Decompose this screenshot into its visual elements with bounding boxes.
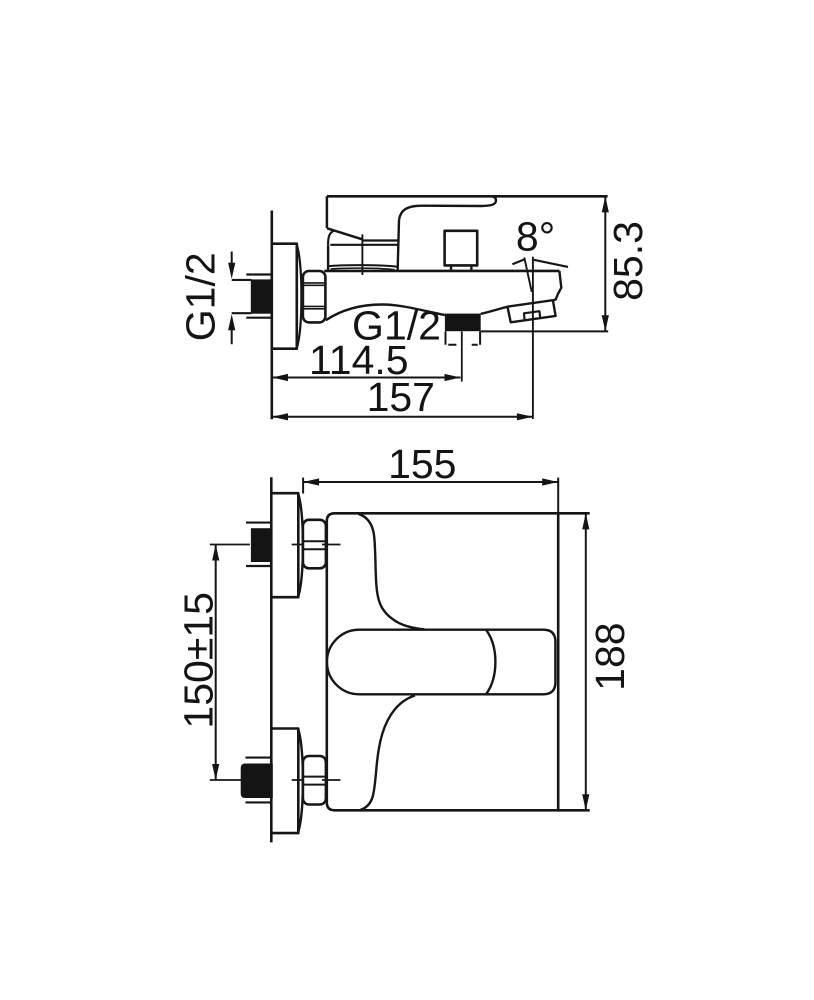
body underside wave (right of outlet) xyxy=(481,307,508,314)
155 left extension line xyxy=(302,478,304,494)
155 right extension line xyxy=(557,478,559,514)
body underside wave (left of outlet) xyxy=(326,304,445,320)
wall inlet thread (black, side view) xyxy=(251,279,272,313)
svg-text:155: 155 xyxy=(388,441,456,487)
handle hub (front view) xyxy=(486,630,555,695)
diverter knob stem xyxy=(451,265,471,271)
body outline (front view) xyxy=(327,513,590,810)
svg-text:8°: 8° xyxy=(516,214,555,260)
hose nipple below outlet xyxy=(446,331,481,344)
spout right face xyxy=(553,271,561,301)
handle left edge and bottom diagonal xyxy=(327,196,362,239)
escutcheon inner edge line xyxy=(297,245,302,349)
wall line (side view) xyxy=(270,211,273,420)
8 deg roof lines xyxy=(512,259,568,267)
svg-text:150±15: 150±15 xyxy=(176,592,222,729)
handle silhouette upper curve xyxy=(358,514,424,630)
cartridge cap top lines xyxy=(330,241,398,245)
150±15 dimension line with arrows xyxy=(215,545,217,780)
cap left edge xyxy=(327,245,329,270)
escutcheon top inner edge xyxy=(298,494,303,596)
lever divider arc xyxy=(486,630,495,695)
inlet centerline ticks bottom xyxy=(210,779,341,781)
escutcheon flange (side view) xyxy=(272,244,297,349)
cap bottom wavy lines xyxy=(328,265,398,267)
dimension G1/2 vertical line with arrows xyxy=(231,252,233,345)
8 deg vertical reference / 157 extension xyxy=(532,257,534,419)
handle silhouette lower curve xyxy=(360,696,415,811)
8 deg tilted line xyxy=(524,258,531,292)
escutcheon bottom inner edge xyxy=(298,729,303,832)
inlet pipe outline lines xyxy=(232,280,252,313)
aerator notch xyxy=(524,311,540,320)
157 dimension line with arrows xyxy=(272,416,533,418)
inlet centerline ticks top xyxy=(210,544,341,546)
188 dimension line with arrows xyxy=(585,514,587,810)
diverter knob xyxy=(445,231,478,266)
inlet fitting outer lines bottom xyxy=(245,758,271,803)
svg-text:85.3: 85.3 xyxy=(605,221,651,301)
handle top line + 85.3 top extension xyxy=(327,195,608,198)
155 dimension line with arrows xyxy=(303,481,558,483)
svg-text:188: 188 xyxy=(587,622,633,690)
svg-text:157: 157 xyxy=(367,374,435,420)
body top line xyxy=(324,270,559,273)
hex nut top (front view) xyxy=(303,520,326,569)
mounting hex nut (side view) xyxy=(303,271,326,322)
spout tip polygon xyxy=(508,300,556,322)
handle lever stadium (front view) xyxy=(327,630,486,695)
wall inlet thread top (black) xyxy=(251,528,272,562)
handle right end curl and underside xyxy=(399,196,496,220)
cartridge cap right edge xyxy=(398,220,399,272)
handle tail arc to cap xyxy=(328,231,334,246)
hex nut bottom (front view) xyxy=(303,756,326,805)
shower outlet thread (black square) xyxy=(445,314,481,332)
svg-text:G1/2: G1/2 xyxy=(352,303,441,349)
85.3 bottom extension line xyxy=(481,330,609,332)
nut facet lines xyxy=(303,283,325,309)
inlet fitting outer lines top xyxy=(246,523,271,566)
85.3 dimension line with arrows xyxy=(604,197,606,331)
svg-text:G1/2: G1/2 xyxy=(178,252,224,341)
escutcheon flange bottom (front view) xyxy=(271,729,298,834)
inlet fitting outer lines xyxy=(246,275,271,318)
wall inlet thread bottom (black) xyxy=(241,764,273,799)
escutcheon flange top (front view) xyxy=(271,493,298,597)
nut bottom facet lines xyxy=(303,777,325,785)
nut top facet lines xyxy=(303,541,325,549)
outlet centerline / 114.5 extension xyxy=(461,331,463,381)
spout tip top edge xyxy=(508,300,553,306)
body joint tick xyxy=(361,234,363,275)
wall line (front view) xyxy=(270,477,273,842)
114.5 dimension line with arrows xyxy=(272,377,461,379)
